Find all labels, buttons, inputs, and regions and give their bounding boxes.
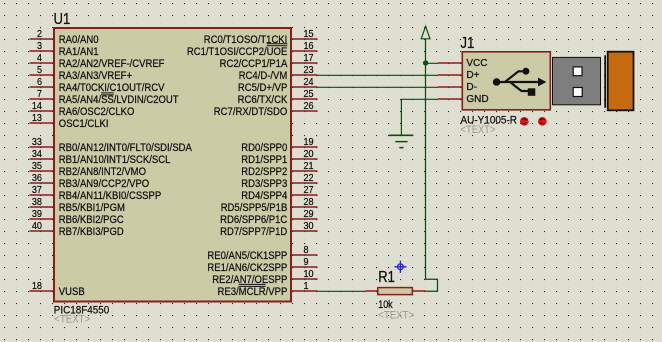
svg-text:28: 28 [304,197,314,208]
svg-text:RA1/AN1: RA1/AN1 [59,46,99,58]
svg-text:RD3/SPP3: RD3/SPP3 [241,178,287,190]
svg-text:3: 3 [37,41,42,52]
svg-text:RD4/SPP4: RD4/SPP4 [241,190,287,202]
svg-text:29: 29 [304,209,314,220]
svg-text:18: 18 [32,281,42,292]
svg-text:RB1/AN10/INT1/SCK/SCL: RB1/AN10/INT1/SCK/SCL [59,154,171,166]
svg-text:36: 36 [32,173,42,184]
svg-text:RB5/KBI1/PGM: RB5/KBI1/PGM [59,202,125,214]
svg-text:4: 4 [37,53,42,64]
svg-text:16: 16 [304,41,314,52]
svg-text:24: 24 [304,77,314,88]
svg-text:RA4/T0CKI/C1OUT/RCV: RA4/T0CKI/C1OUT/RCV [59,82,165,94]
svg-text:34: 34 [32,149,42,160]
svg-text:1: 1 [304,281,309,292]
svg-text:2: 2 [37,29,42,40]
svg-text:30: 30 [304,221,314,232]
svg-text:37: 37 [32,185,42,196]
svg-text:RC7/RX/DT/SDO: RC7/RX/DT/SDO [214,106,288,118]
svg-text:19: 19 [304,137,314,148]
svg-text:RD5/SPP5/P1B: RD5/SPP5/P1B [221,202,288,214]
svg-text:J1: J1 [460,35,474,52]
svg-text:R1: R1 [378,269,395,286]
svg-text:RA3/AN3/VREF+: RA3/AN3/VREF+ [59,70,132,82]
svg-text:17: 17 [304,53,314,64]
svg-text:RA0/AN0: RA0/AN0 [59,34,99,46]
svg-text:23: 23 [304,65,314,76]
svg-text:40: 40 [32,221,42,232]
svg-text:<TEXT>: <TEXT> [54,314,90,326]
svg-text:8: 8 [304,245,309,256]
svg-text:10: 10 [304,269,314,280]
svg-text:RA2/AN2/VREF-/CVREF: RA2/AN2/VREF-/CVREF [59,58,165,70]
svg-text:5: 5 [37,65,42,76]
svg-text:RC1/T1OSI/CCP2/UOE: RC1/T1OSI/CCP2/UOE [187,46,287,58]
svg-text:D+: D+ [466,70,479,81]
svg-text:9: 9 [304,257,309,268]
svg-text:RB0/AN12/INT0/FLT0/SDI/SDA: RB0/AN12/INT0/FLT0/SDI/SDA [59,142,193,154]
svg-text:D-: D- [466,82,477,93]
svg-text:25: 25 [304,89,314,100]
svg-text:RE3/MCLR/VPP: RE3/MCLR/VPP [218,286,288,298]
svg-text:38: 38 [32,197,42,208]
svg-text:7: 7 [37,89,42,100]
svg-text:RD0/SPP0: RD0/SPP0 [241,142,287,154]
svg-text:RD7/SPP7/P1D: RD7/SPP7/P1D [220,226,287,238]
svg-text:RC2/CCP1/P1A: RC2/CCP1/P1A [220,58,288,70]
svg-text:33: 33 [32,137,42,148]
svg-text:RB4/AN11/KBI0/CSSPP: RB4/AN11/KBI0/CSSPP [59,190,161,202]
svg-text:22: 22 [304,173,314,184]
svg-text:21: 21 [304,161,314,172]
svg-text:RC4/D-/VM: RC4/D-/VM [239,70,288,82]
svg-text:RA5/AN4/SS/LVDIN/C2OUT: RA5/AN4/SS/LVDIN/C2OUT [59,94,179,106]
svg-text:6: 6 [37,77,42,88]
svg-text:OSC1/CLKI: OSC1/CLKI [59,118,109,130]
svg-text:RE0/AN5/CK1SPP: RE0/AN5/CK1SPP [207,250,287,262]
svg-text:<TEXT>: <TEXT> [461,124,496,136]
svg-text:VCC: VCC [466,58,487,69]
svg-text:U1: U1 [54,11,71,28]
svg-text:RD1/SPP1: RD1/SPP1 [241,154,287,166]
svg-text:RE1/AN6/CK2SPP: RE1/AN6/CK2SPP [207,262,287,274]
svg-text:RB3/AN9/CCP2/VPO: RB3/AN9/CCP2/VPO [59,178,149,190]
svg-text:27: 27 [304,185,314,196]
svg-text:14: 14 [32,101,42,112]
svg-text:RB2/AN8/INT2/VMO: RB2/AN8/INT2/VMO [59,166,146,178]
svg-text:26: 26 [304,101,314,112]
svg-text:RC5/D+/VP: RC5/D+/VP [238,82,287,94]
svg-text:RB6/KBI2/PGC: RB6/KBI2/PGC [59,214,124,226]
svg-text:20: 20 [304,149,314,160]
svg-text:RD6/SPP6/P1C: RD6/SPP6/P1C [220,214,287,226]
svg-text:GND: GND [466,94,488,105]
svg-text:<TEXT>: <TEXT> [378,309,414,321]
svg-text:RB7/KBI3/PGD: RB7/KBI3/PGD [59,226,124,238]
svg-text:13: 13 [32,113,42,124]
svg-text:35: 35 [32,161,42,172]
svg-text:39: 39 [32,209,42,220]
svg-text:RD2/SPP2: RD2/SPP2 [241,166,287,178]
svg-text:RA6/OSC2/CLKO: RA6/OSC2/CLKO [59,106,135,118]
svg-text:15: 15 [304,29,314,40]
svg-text:RC6/TX/CK: RC6/TX/CK [238,94,288,106]
svg-text:VUSB: VUSB [59,286,85,298]
